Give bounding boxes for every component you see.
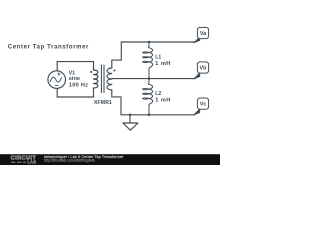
svg-text:Va: Va (200, 31, 207, 37)
core (101, 65, 104, 93)
footer logo waveform dashes (11, 161, 26, 163)
svg-text:sine: sine (69, 76, 80, 82)
junction ground tap (129, 114, 132, 117)
wire bottom of primary loop (57, 96, 93, 98)
flag pointer Vc (194, 109, 200, 115)
svg-text:XFMR1: XFMR1 (94, 100, 112, 106)
flag pointer Vb (194, 73, 200, 79)
svg-text:http://circuitlab.com/c68t5hzg: http://circuitlab.com/c68t5hzg3vfk (44, 159, 95, 163)
junction L2 bottom (148, 114, 151, 117)
ground (123, 115, 138, 130)
transformer XFMR1 (94, 65, 112, 93)
polarity dot secondary (113, 69, 115, 71)
flag box Va (197, 27, 208, 38)
secondary winding (107, 68, 112, 90)
voltage source V1 (48, 71, 66, 89)
wire node Vb rail / center tap (112, 78, 195, 80)
flag pointer Va (194, 37, 200, 43)
wire node Vc rail (121, 114, 195, 116)
svg-text:L1: L1 (155, 54, 161, 60)
polarity dot primary (90, 71, 92, 73)
flag box Vb (197, 62, 208, 73)
svg-text:Center Tap Transformer: Center Tap Transformer (8, 44, 89, 50)
flag box Vc (197, 98, 208, 109)
primary winding (94, 70, 98, 88)
svg-text:LAB: LAB (28, 160, 37, 165)
svg-text:100 Hz: 100 Hz (69, 82, 89, 88)
wire left of primary loop (56, 62, 58, 97)
footer bar (0, 154, 220, 165)
wire node Va rail (121, 41, 195, 43)
svg-text:1 mH: 1 mH (155, 97, 170, 103)
inductor L2 (143, 79, 153, 115)
svg-text:1 mH: 1 mH (155, 61, 170, 67)
wire secondary bottom lead (112, 90, 121, 115)
wire right of primary loop (93, 62, 95, 97)
svg-text:L2: L2 (155, 91, 161, 97)
junction L1 bottom (148, 77, 151, 80)
svg-text:Vb: Vb (200, 65, 208, 71)
wire top of primary loop (57, 61, 93, 63)
junction L1 top (148, 41, 151, 44)
inductor L1 (143, 42, 153, 79)
wire secondary top lead (112, 42, 122, 68)
svg-text:Vc: Vc (200, 102, 207, 108)
